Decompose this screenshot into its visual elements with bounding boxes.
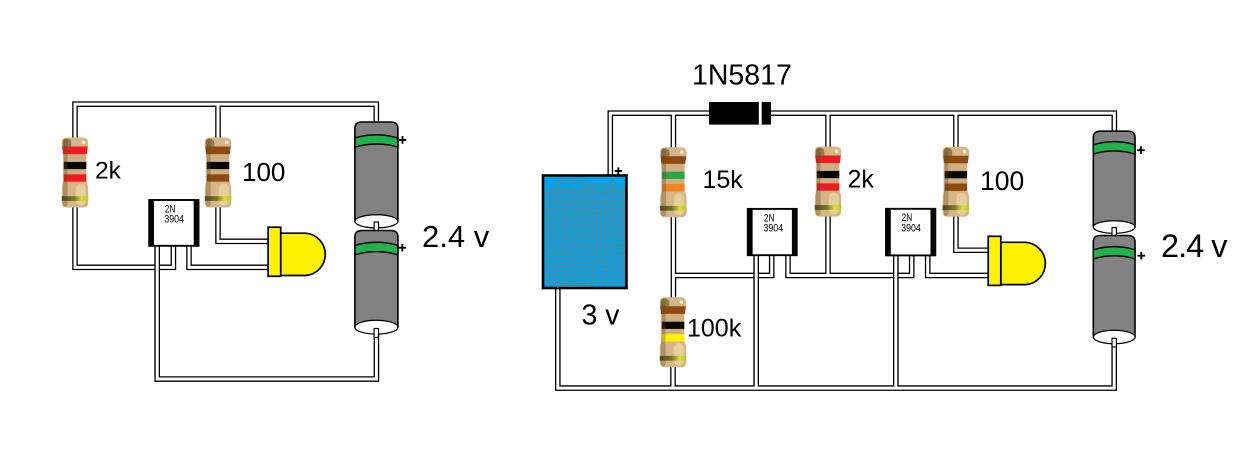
wire W6: R2 bottom to LED D1 anode (outline) [218, 204, 272, 241]
svg-text:100: 100 [242, 157, 285, 187]
wire W9: top rail junction to R4 top (outline) [825, 113, 831, 150]
transistor U2 2N3904 [886, 209, 935, 256]
wire W14: U1 collector to U2 base (interior) [788, 253, 912, 275]
wire W20: R6 bottom to bottom rail (outline) [670, 367, 676, 388]
wire W7: solar panel + to top rail to battery B2 + (outline) [610, 113, 1114, 180]
resistor R5 (100, brown-black-brown) [943, 147, 970, 217]
wire W1: R1 top to +rail to battery B1 + (outline) [75, 104, 376, 140]
battery B1 cell 2 [355, 231, 406, 335]
wire W13: U1 emitter to bottom rail (outline) [753, 253, 759, 388]
battery B1 cell 1 [355, 122, 406, 228]
svg-text:2.4 v: 2.4 v [1161, 228, 1228, 264]
wire W14: U1 collector to U2 base (outline) [788, 253, 912, 275]
wire W2: +rail junction down to R2 top (interior) [217, 104, 220, 140]
wire W19: solar panel - to bottom rail to battery B2 - (interior) [558, 284, 1114, 388]
LED D1 (yellow) [268, 227, 325, 276]
wire W16: U2 emitter to bottom rail (interior) [894, 253, 897, 388]
wire W10: top rail junction to R5 top (interior) [954, 113, 957, 150]
battery B2 inter-cell terminal [1112, 228, 1116, 237]
wire W11: R3 bottom to R6 top (interior) [672, 215, 675, 300]
svg-text:2k: 2k [95, 158, 122, 185]
svg-text:2k: 2k [848, 166, 875, 194]
wire W4: Q1 emitter to bottom rail to battery B1 - (outline) [157, 244, 376, 379]
transistor U1 2N3904 [748, 209, 797, 255]
wire W20: R6 bottom to bottom rail (interior) [672, 367, 675, 388]
wire W4 emitter lead (over crossing) [154, 244, 160, 376]
svg-text:100: 100 [980, 166, 1024, 196]
svg-text:2.4 v: 2.4 v [422, 219, 490, 254]
wire W13 emitter lead (over crossing) [753, 253, 759, 385]
wire W3: R1 bottom to Q1 base (outline) [75, 204, 173, 267]
wire W12: node A to U1 base (outline) [673, 253, 771, 275]
wire W8: top rail junction to R3 top (outline) [671, 113, 677, 150]
battery B1 inter-cell terminal [374, 222, 378, 232]
wire W8: top rail junction to R3 top (interior) [672, 113, 675, 150]
wire W17: U2 collector to LED D3 cathode (outline) [928, 253, 992, 275]
transistor Q1 2N3904 [149, 200, 198, 246]
diode D2 1N5817 body [709, 102, 771, 125]
svg-text:3904: 3904 [764, 223, 784, 235]
wire W17: U2 collector to LED D3 cathode (interior) [928, 253, 992, 275]
wire W16: U2 emitter to bottom rail (outline) [893, 253, 899, 388]
resistor R4 (2k, red-black-red) [815, 147, 842, 217]
resistor R1 (2k, red-black-red) [62, 138, 89, 208]
svg-text:15k: 15k [703, 166, 744, 194]
solar panel PV1 (3 v) [543, 167, 627, 288]
svg-text:3904: 3904 [164, 214, 184, 226]
LED D3 (yellow) [988, 236, 1045, 285]
wire W19: solar panel - to bottom rail to battery B2 - (outline) [558, 284, 1114, 388]
wire W15: node B down from R4 bottom (interior) [827, 214, 830, 275]
svg-text:1N5817: 1N5817 [692, 60, 792, 92]
wire W18: R5 bottom to LED D3 anode (outline) [956, 213, 992, 250]
wire W11: R3 bottom to R6 top (outline) [671, 215, 677, 300]
wire W10: top rail junction to R5 top (outline) [953, 113, 959, 150]
wire W15: node B down from R4 bottom (outline) [825, 214, 831, 275]
wire W2: +rail junction down to R2 top (outline) [215, 104, 221, 140]
battery B2 cell 1 [1093, 131, 1144, 233]
resistor R2 (100, brown-black-brown) [205, 138, 232, 208]
wire W3: R1 bottom to Q1 base (interior) [75, 204, 173, 267]
wire W13: U1 emitter to bottom rail (interior) [755, 253, 758, 388]
wire W7: solar panel + to top rail to battery B2 + (interior) [610, 113, 1114, 180]
svg-text:3 v: 3 v [582, 300, 621, 332]
wire W1: R1 top to +rail to battery B1 + (interior) [75, 104, 376, 140]
wire W12: node A to U1 base (interior) [673, 253, 771, 275]
wire W6: R2 bottom to LED D1 anode (interior) [218, 204, 272, 241]
wire W9: top rail junction to R4 top (interior) [827, 113, 830, 150]
svg-text:100k: 100k [687, 315, 742, 343]
wire W5: Q1 collector to LED D1 cathode (interior) [189, 244, 272, 267]
svg-text:3904: 3904 [901, 222, 921, 234]
battery B1 negative terminal [374, 329, 378, 338]
wire W18: R5 bottom to LED D3 anode (interior) [956, 213, 992, 250]
wire W4: Q1 emitter to bottom rail to battery B1 - (interior) [157, 244, 376, 379]
resistor R3 (15k, brown-green-orange) [660, 147, 687, 217]
wire W16 emitter lead (over crossing) [893, 253, 899, 385]
battery B2 negative terminal [1112, 338, 1116, 347]
wire W5: Q1 collector to LED D1 cathode (outline) [189, 244, 272, 267]
resistor R6 (100k, brown-black-yellow) [660, 297, 687, 367]
battery B2 cell 2 [1093, 236, 1145, 344]
